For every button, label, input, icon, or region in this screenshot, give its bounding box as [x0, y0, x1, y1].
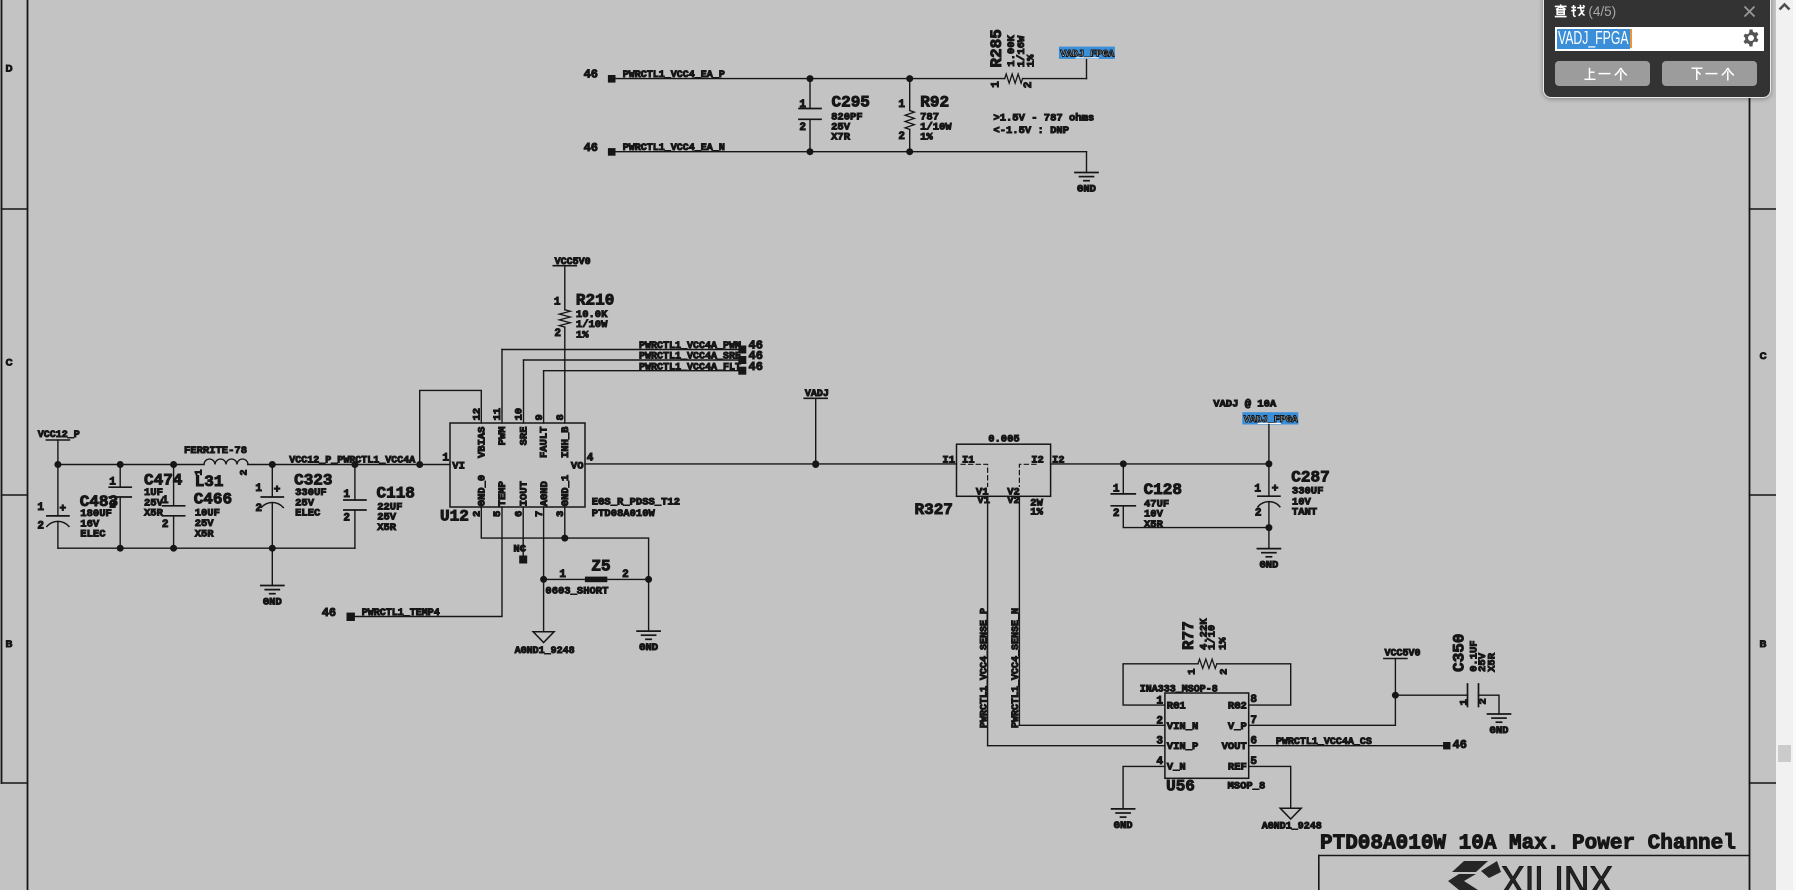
svg-text:1%: 1% [920, 132, 933, 144]
svg-text:VCC5V0: VCC5V0 [555, 257, 591, 268]
svg-text:FERRITE-78: FERRITE-78 [184, 445, 247, 457]
svg-text:RG1: RG1 [1167, 701, 1186, 713]
svg-text:R210: R210 [576, 291, 614, 309]
svg-text:GND_0: GND_0 [477, 475, 489, 507]
svg-text:PWM: PWM [497, 427, 509, 446]
svg-text:+: + [274, 485, 281, 497]
svg-text:2: 2 [255, 503, 262, 515]
svg-text:VADJ @ 10A: VADJ @ 10A [1213, 398, 1277, 410]
svg-text:2: 2 [1113, 508, 1120, 520]
svg-text:VO: VO [571, 460, 584, 472]
svg-text:VI: VI [452, 460, 465, 472]
svg-text:9: 9 [534, 414, 546, 420]
svg-text:2: 2 [554, 328, 561, 340]
svg-text:GND: GND [1077, 184, 1096, 196]
svg-text:8: 8 [1250, 694, 1257, 706]
svg-text:C: C [1760, 351, 1767, 362]
svg-text:R285: R285 [988, 29, 1006, 67]
svg-text:1: 1 [255, 483, 262, 495]
svg-text:2: 2 [1255, 508, 1262, 520]
svg-text:PTD08A010W: PTD08A010W [592, 508, 656, 520]
svg-text:X5R: X5R [1487, 652, 1499, 672]
svg-text:VIN_P: VIN_P [1167, 741, 1199, 753]
svg-text:1: 1 [991, 81, 1003, 88]
svg-text:2: 2 [240, 469, 251, 475]
svg-text:PWRCTL1_VCC4A_FLT: PWRCTL1_VCC4A_FLT [639, 362, 741, 373]
svg-text:X7R: X7R [831, 132, 851, 144]
svg-text:10: 10 [514, 408, 526, 421]
svg-text:AGND: AGND [539, 481, 551, 506]
svg-text:1%: 1% [1217, 637, 1229, 650]
svg-text:R77: R77 [1180, 621, 1198, 650]
svg-text:I1: I1 [942, 454, 955, 466]
svg-text:U56: U56 [1166, 778, 1195, 796]
svg-text:46: 46 [584, 68, 598, 82]
svg-text:VCC12_P_PWRCTL1_VCC4A: VCC12_P_PWRCTL1_VCC4A [289, 455, 415, 466]
svg-text:C118: C118 [377, 484, 415, 502]
svg-text:C295: C295 [832, 94, 870, 112]
svg-text:ELEC: ELEC [80, 529, 106, 541]
svg-text:+: + [60, 504, 67, 516]
svg-text:AGND1_9248: AGND1_9248 [1262, 821, 1322, 832]
svg-text:X5R: X5R [1144, 519, 1164, 531]
svg-text:TEMP: TEMP [497, 481, 509, 506]
svg-text:GND: GND [263, 597, 282, 609]
svg-text:TANT: TANT [1292, 506, 1317, 518]
svg-text:PWRCTL1_TEMP4: PWRCTL1_TEMP4 [362, 608, 440, 619]
svg-text:VBIAS: VBIAS [476, 427, 488, 459]
svg-text:1: 1 [109, 476, 116, 488]
svg-text:C128: C128 [1144, 481, 1182, 499]
svg-text:X5R: X5R [377, 522, 397, 534]
svg-text:PWRCTL1_VCC4_SENSE_N: PWRCTL1_VCC4_SENSE_N [1011, 608, 1022, 728]
svg-text:>1.5V - 787 ohms: >1.5V - 787 ohms [993, 112, 1094, 124]
svg-text:U12: U12 [440, 508, 469, 526]
svg-text:PWRCTL1_VCC4A_SRE: PWRCTL1_VCC4A_SRE [639, 352, 741, 363]
svg-text:NC: NC [513, 544, 526, 556]
svg-text:ELEC: ELEC [295, 508, 321, 520]
svg-text:V_N: V_N [1167, 761, 1186, 773]
svg-text:<-1.5V : DNP: <-1.5V : DNP [993, 125, 1069, 137]
svg-text:REF: REF [1228, 761, 1247, 773]
svg-text:INA333_MSOP-8: INA333_MSOP-8 [1140, 684, 1218, 695]
svg-text:2: 2 [622, 569, 629, 581]
svg-text:B: B [1760, 639, 1767, 650]
svg-text:EGS_R_PDSS_T12: EGS_R_PDSS_T12 [592, 497, 680, 509]
svg-text:8: 8 [555, 414, 567, 420]
svg-text:46: 46 [584, 141, 598, 155]
svg-text:0.005: 0.005 [988, 434, 1020, 446]
svg-text:2: 2 [799, 122, 806, 134]
svg-text:PTD08A010W 10A Max. Power Chan: PTD08A010W 10A Max. Power Channel [1320, 833, 1736, 856]
svg-text:1%: 1% [1026, 54, 1038, 67]
svg-text:2: 2 [898, 131, 905, 143]
svg-text:X5R: X5R [144, 508, 164, 520]
svg-text:PWRCTL1_VCC4_EA_N: PWRCTL1_VCC4_EA_N [623, 143, 725, 154]
svg-text:46: 46 [1453, 738, 1467, 752]
svg-text:C466: C466 [194, 490, 232, 508]
svg-text:PWRCTL1_VCC4_SENSE_P: PWRCTL1_VCC4_SENSE_P [980, 608, 991, 728]
svg-text:GND: GND [639, 642, 658, 654]
svg-text:1: 1 [554, 296, 561, 308]
svg-text:GND_1: GND_1 [560, 475, 572, 507]
svg-text:1: 1 [799, 99, 806, 111]
svg-text:V2: V2 [1007, 495, 1020, 507]
svg-text:C287: C287 [1291, 469, 1329, 487]
svg-text:12: 12 [472, 408, 484, 421]
svg-text:1: 1 [162, 495, 169, 507]
svg-text:46: 46 [322, 606, 336, 620]
svg-text:2: 2 [343, 513, 350, 525]
svg-text:AGND1_9248: AGND1_9248 [515, 646, 575, 657]
svg-text:X5R: X5R [195, 529, 215, 541]
svg-text:11: 11 [492, 408, 504, 421]
svg-text:PWRCTL1_VCC4_EA_P: PWRCTL1_VCC4_EA_P [623, 70, 725, 81]
svg-text:2: 2 [37, 521, 44, 533]
svg-text:VADJ_FPGA: VADJ_FPGA [1060, 50, 1114, 61]
svg-text:GND: GND [1114, 820, 1133, 832]
svg-text:1: 1 [1254, 484, 1261, 496]
svg-text:1: 1 [1459, 699, 1471, 705]
svg-text:2: 2 [109, 500, 116, 512]
svg-text:1: 1 [1156, 695, 1163, 707]
svg-text:1: 1 [442, 453, 449, 465]
svg-text:PWRCTL1_VCC4A_CS: PWRCTL1_VCC4A_CS [1276, 737, 1372, 748]
svg-text:1: 1 [343, 489, 350, 501]
svg-text:IOUT: IOUT [518, 481, 530, 506]
svg-text:VIN_N: VIN_N [1167, 721, 1199, 733]
svg-text:1: 1 [37, 502, 44, 514]
svg-text:Z5: Z5 [591, 557, 610, 575]
svg-text:2: 2 [1478, 698, 1490, 704]
svg-text:SRE: SRE [519, 427, 531, 446]
svg-text:D: D [6, 64, 13, 75]
svg-text:PWRCTL1_VCC4A_PWM: PWRCTL1_VCC4A_PWM [639, 341, 741, 352]
svg-text:R92: R92 [920, 94, 949, 112]
svg-text:MSOP_8: MSOP_8 [1228, 781, 1266, 793]
svg-text:FAULT: FAULT [539, 427, 551, 459]
svg-text:INH_B: INH_B [560, 426, 572, 458]
svg-text:1: 1 [1113, 483, 1120, 495]
svg-text:VCC5V0: VCC5V0 [1385, 648, 1421, 659]
svg-text:RG2: RG2 [1228, 701, 1247, 713]
svg-text:0603_SHORT: 0603_SHORT [545, 586, 608, 598]
svg-text:1: 1 [898, 99, 905, 111]
svg-text:1: 1 [1187, 669, 1199, 675]
svg-text:C: C [6, 358, 13, 369]
svg-text:VOUT: VOUT [1222, 741, 1247, 753]
svg-text:2: 2 [1023, 82, 1035, 89]
svg-text:L31: L31 [195, 473, 224, 491]
svg-text:46: 46 [749, 360, 763, 374]
svg-text:1%: 1% [1030, 507, 1043, 519]
svg-text:4: 4 [587, 453, 594, 465]
svg-text:R327: R327 [915, 501, 953, 519]
svg-text:C350: C350 [1451, 633, 1469, 671]
svg-text:1: 1 [559, 569, 566, 581]
svg-text:GND: GND [1259, 560, 1278, 572]
svg-text:GND: GND [1490, 725, 1509, 737]
svg-text:+: + [1272, 484, 1279, 496]
svg-text:1%: 1% [576, 329, 589, 341]
svg-text:V_P: V_P [1228, 721, 1247, 733]
svg-text:2: 2 [1219, 669, 1231, 675]
svg-text:VADJ_FPGA: VADJ_FPGA [1244, 415, 1298, 426]
svg-text:2: 2 [162, 519, 169, 531]
svg-text:B: B [6, 639, 13, 650]
svg-text:XILINX: XILINX [1501, 859, 1613, 890]
